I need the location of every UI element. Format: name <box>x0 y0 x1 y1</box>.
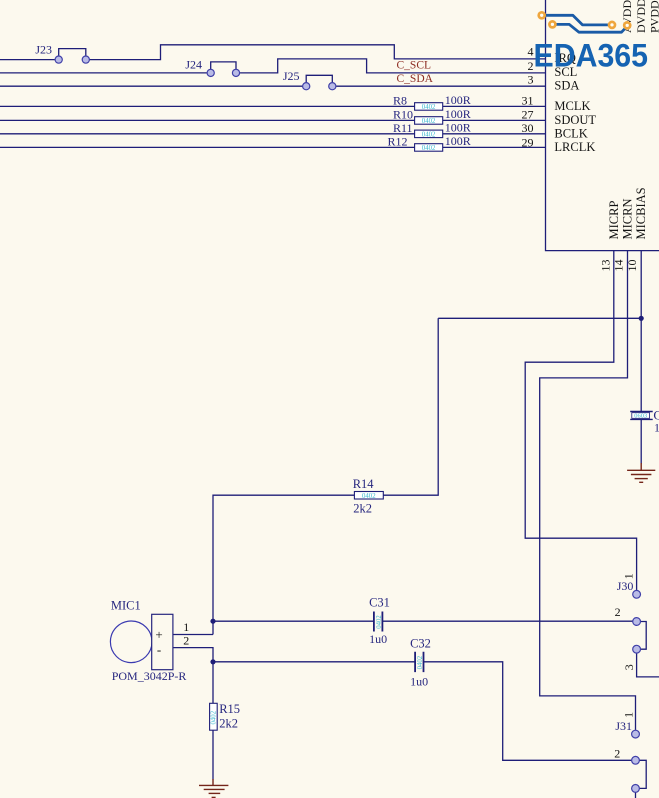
wire cap to ground <box>640 420 642 464</box>
svg-text:R12: R12 <box>387 134 407 148</box>
wire MIC pin1 stub <box>173 634 213 636</box>
resistor R14 body <box>354 492 383 500</box>
svg-text:MCLK: MCLK <box>554 99 590 113</box>
wire BCLK row <box>0 133 546 135</box>
jumper J24 pads <box>207 69 214 76</box>
op chip U (codec) body edge <box>546 0 659 251</box>
svg-text:3: 3 <box>622 664 636 670</box>
svg-text:BCLK: BCLK <box>554 127 587 141</box>
resistor R11 body <box>415 130 443 138</box>
svg-text:MICRN: MICRN <box>621 199 635 240</box>
wire net SCL row left of J24 <box>0 72 207 74</box>
svg-text:30: 30 <box>522 121 534 135</box>
svg-text:EDA365: EDA365 <box>534 38 649 74</box>
wire net SCL row J24 to chip <box>240 59 546 73</box>
svg-text:-: - <box>157 642 161 657</box>
wire J31 pins 2-3 bracket <box>639 760 646 788</box>
jumper J24 bracket <box>211 62 236 69</box>
junction node MICBIAS branch <box>639 316 644 321</box>
svg-text:1u0: 1u0 <box>654 421 659 435</box>
svg-text:C32: C32 <box>410 636 431 650</box>
svg-text:0603: 0603 <box>634 412 647 419</box>
svg-text:J23: J23 <box>35 42 52 56</box>
wire J30 pins 2-3 bracket <box>641 622 647 650</box>
logo trace A <box>542 15 612 25</box>
svg-text:C31: C31 <box>369 595 390 609</box>
svg-text:J24: J24 <box>185 58 202 72</box>
svg-text:J25: J25 <box>283 69 300 83</box>
svg-text:R15: R15 <box>219 702 240 716</box>
wire J30 pin3 exit <box>637 653 659 677</box>
svg-text:31: 31 <box>522 93 534 107</box>
junction node at MIC pin1 <box>210 619 215 624</box>
logo pad 1 <box>539 12 545 18</box>
svg-text:0402: 0402 <box>362 493 376 500</box>
ground symbol below R15 <box>199 779 228 797</box>
svg-text:R11: R11 <box>393 121 413 135</box>
wire MIC pin2 stub <box>173 648 213 780</box>
svg-text:MIC1: MIC1 <box>111 598 141 612</box>
svg-text:2k2: 2k2 <box>353 501 372 515</box>
svg-text:R8: R8 <box>393 93 407 107</box>
jumper J23 pads <box>55 56 62 63</box>
ground symbol below C33 <box>627 463 655 482</box>
connector J31 pad 2 <box>632 756 640 764</box>
svg-text:13: 13 <box>599 260 613 272</box>
svg-text:J31: J31 <box>615 719 632 733</box>
svg-text:1u0: 1u0 <box>369 632 387 646</box>
svg-text:2: 2 <box>615 605 621 619</box>
svg-text:1u0: 1u0 <box>410 675 428 689</box>
svg-text:R10: R10 <box>393 107 413 121</box>
capacitor C33 0603 tag box <box>632 413 650 419</box>
junction node at MIC pin2 <box>210 659 215 664</box>
wire C32 row <box>213 662 632 761</box>
svg-text:100R: 100R <box>445 107 471 121</box>
resistor R12 body <box>415 144 443 152</box>
wire MICBIAS pin10 down to cap <box>640 251 642 411</box>
svg-text:29: 29 <box>522 135 534 149</box>
svg-text:0402: 0402 <box>211 710 218 724</box>
svg-text:POM_3042P-R: POM_3042P-R <box>112 669 187 683</box>
wire R14 row <box>213 318 438 634</box>
svg-text:LRCLK: LRCLK <box>554 140 595 154</box>
capacitor C32 plates <box>415 652 423 672</box>
connector J30 pad 3 <box>633 645 641 653</box>
svg-text:J30: J30 <box>617 579 634 593</box>
logo pad 4 <box>624 22 630 28</box>
svg-text:DVDD: DVDD <box>634 0 648 33</box>
svg-text:100R: 100R <box>445 93 471 107</box>
jumper J23 bracket <box>59 49 86 56</box>
svg-text:0402: 0402 <box>422 131 436 138</box>
svg-text:SDA: SDA <box>554 79 579 93</box>
svg-text:1: 1 <box>621 573 635 579</box>
logo pad 3 <box>609 22 615 28</box>
svg-text:2: 2 <box>614 747 620 761</box>
wire MICRP pin13 to J30 pin1 <box>525 251 636 591</box>
svg-text:PVDD: PVDD <box>648 0 659 33</box>
svg-text:0402: 0402 <box>422 118 436 125</box>
svg-text:100R: 100R <box>445 121 471 135</box>
svg-text:MICBIAS: MICBIAS <box>634 187 648 239</box>
svg-text:MICRP: MICRP <box>607 201 621 240</box>
svg-text:3: 3 <box>528 73 534 87</box>
resistor R10 body <box>415 117 443 125</box>
wire MCLK row <box>0 105 546 107</box>
wire net SDA row J25 to chip <box>336 85 546 87</box>
wire net IRQ row J23 to rise <box>89 45 545 60</box>
svg-text:1: 1 <box>183 620 189 634</box>
svg-text:100R: 100R <box>445 134 471 148</box>
wire net SDA row left of J25 <box>0 85 303 87</box>
wire MICRN pin14 to J31 pin1 <box>540 251 636 731</box>
wire J31 pin3 exit <box>635 792 637 798</box>
logo pad 2 <box>549 21 555 27</box>
connector J31 pad 1 <box>632 730 640 738</box>
resistor R8 body <box>415 103 443 111</box>
svg-text:2: 2 <box>183 634 189 648</box>
svg-text:C_SDA: C_SDA <box>397 73 434 85</box>
svg-text:0402: 0402 <box>422 104 436 111</box>
svg-text:C_SCL: C_SCL <box>397 59 432 71</box>
jumper J25 bracket <box>306 75 332 82</box>
connector J30 pad 1 <box>633 590 641 598</box>
svg-text:2k2: 2k2 <box>219 716 238 730</box>
microphone MIC1 circle <box>110 621 152 663</box>
wire net IRQ row left of J23 <box>0 59 55 61</box>
svg-text:+: + <box>155 627 162 642</box>
jumper J25 pads <box>303 83 310 90</box>
wire LRCLK row <box>0 146 546 148</box>
resistor R15 body (vertical) <box>210 703 218 730</box>
capacitor C33 plates <box>630 412 653 420</box>
svg-text:27: 27 <box>522 107 534 121</box>
svg-text:R14: R14 <box>353 477 375 491</box>
connector J31 pad 3 <box>632 785 640 793</box>
svg-text:0402: 0402 <box>376 615 383 629</box>
capacitor C31 plates <box>374 612 383 632</box>
logo trace B <box>552 24 627 32</box>
svg-text:1: 1 <box>621 712 635 718</box>
microphone MIC1 body rect <box>152 614 173 669</box>
svg-text:0402: 0402 <box>417 655 424 669</box>
svg-text:SDOUT: SDOUT <box>554 113 596 127</box>
wire MICBIAS branch to R14 <box>438 317 641 319</box>
svg-text:0402: 0402 <box>422 145 436 152</box>
wire C31 row <box>213 620 633 622</box>
wire SDOUT row <box>0 119 546 121</box>
connector J30 pad 2 <box>633 618 641 626</box>
